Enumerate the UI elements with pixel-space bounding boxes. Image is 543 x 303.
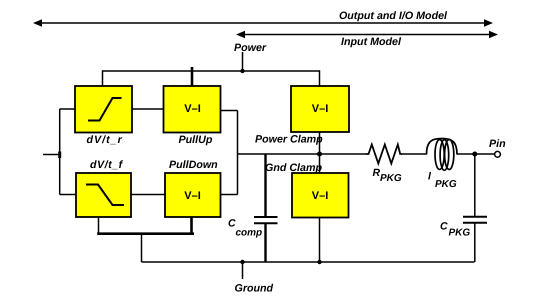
wire: Power label tick	[242, 52, 244, 71]
svg-text:C: C	[440, 221, 448, 233]
label: L_PKG	[428, 171, 457, 191]
wire: C_PKG bottom lead	[474, 223, 476, 262]
svg-text:PKG: PKG	[380, 173, 402, 184]
block U2: PullUp V-I	[164, 86, 221, 133]
block U3: Power Clamp V-I	[291, 86, 349, 132]
wire: power rail down to Power Clamp block	[319, 70, 321, 86]
capacitor C_PKG	[463, 217, 487, 223]
label: C_comp	[228, 218, 262, 239]
svg-text:V–I: V–I	[312, 103, 329, 115]
wire: power rail	[102, 70, 320, 72]
wire: left vertical bus	[59, 109, 61, 195]
svg-text:Ground: Ground	[235, 283, 274, 295]
capacitor C_comp	[254, 217, 278, 223]
wire: dV/t_f output to PullDown input	[131, 194, 165, 196]
node: junction dot at clamp column	[317, 152, 322, 157]
wire: PullDown bottom drop (thick)	[190, 217, 193, 234]
svg-text:Input Model: Input Model	[341, 36, 402, 48]
node: input junction tick	[58, 152, 61, 159]
svg-text:Gnd Clamp: Gnd Clamp	[265, 162, 322, 174]
wire: connector drop to ground rail	[141, 234, 143, 262]
wire: PullUp output stub	[221, 110, 238, 112]
svg-text:dV/t_f: dV/t_f	[90, 159, 124, 171]
pin terminal circle	[495, 151, 501, 157]
node: junction dot ground/ Gnd Clamp	[317, 260, 321, 264]
wire: Ground label tick	[242, 262, 244, 279]
wire: die pad node horizontal	[238, 153, 367, 155]
wire: ground rail	[142, 261, 475, 263]
wire: PullDown output stub	[221, 194, 238, 196]
svg-text:comp: comp	[236, 228, 263, 239]
svg-text:Power Clamp: Power Clamp	[255, 134, 323, 146]
svg-text:PullUp: PullUp	[179, 134, 213, 146]
svg-text:PullDown: PullDown	[169, 159, 218, 171]
wire: inductor to pin node	[457, 153, 475, 155]
svg-text:V–I: V–I	[312, 190, 329, 202]
arrow: Output and I/O Model span	[33, 19, 493, 27]
wire: bottom thick connector	[97, 232, 194, 235]
label: R_PKG	[373, 167, 402, 184]
svg-text:Output and I/O Model: Output and I/O Model	[339, 10, 448, 22]
wire: input stub (left)	[43, 154, 60, 156]
block U6: Gnd Clamp V-I	[292, 173, 349, 218]
wire: C_PKG top lead	[474, 154, 476, 217]
wire: dV/t_f bottom drop	[98, 217, 100, 234]
wire: left bus to dV/t_f input	[60, 194, 76, 196]
block U1: dV/t_r ramp generator	[75, 86, 132, 133]
wire: left bus to dV/t_r input	[60, 108, 75, 110]
wire: C_comp top lead (thick)	[264, 154, 266, 217]
wire: dV/t_r output to PullUp input	[132, 108, 164, 110]
wire: node to Gnd Clamp top	[319, 154, 321, 173]
svg-text:PKG: PKG	[449, 228, 471, 239]
resistor R_PKG	[366, 145, 402, 164]
arrow: Input Model span	[236, 31, 498, 39]
svg-text:Power: Power	[234, 42, 267, 54]
wire: pin node to pin terminal	[475, 153, 495, 155]
block U4: dV/t_f ramp generator	[76, 173, 131, 217]
svg-text:Pin: Pin	[489, 138, 506, 150]
block U5: PullDown V-I	[165, 173, 221, 217]
wire: Gnd Clamp bottom to ground rail	[319, 218, 321, 263]
wire: power rail down to dV/t_r block	[102, 70, 104, 86]
svg-text:V–I: V–I	[184, 103, 201, 115]
inductor L_PKG	[427, 139, 458, 171]
node: junction dot pin/C_PKG	[472, 152, 477, 157]
node: junction dot on power rail	[240, 69, 244, 73]
wire: Power Clamp bottom to node	[319, 132, 321, 154]
wire: C_comp bottom lead (thick)	[264, 223, 266, 262]
wire: output vertical bus	[237, 111, 239, 195]
svg-text:dV/t_r: dV/t_r	[87, 134, 123, 146]
label: C_PKG	[440, 221, 470, 239]
wire: power rail down to PullUp block (thick)	[191, 67, 194, 86]
wire: resistor to inductor	[402, 153, 427, 155]
svg-text:PKG: PKG	[435, 179, 457, 190]
svg-text:V–I: V–I	[184, 190, 201, 202]
node: junction dot ground label	[240, 260, 244, 264]
